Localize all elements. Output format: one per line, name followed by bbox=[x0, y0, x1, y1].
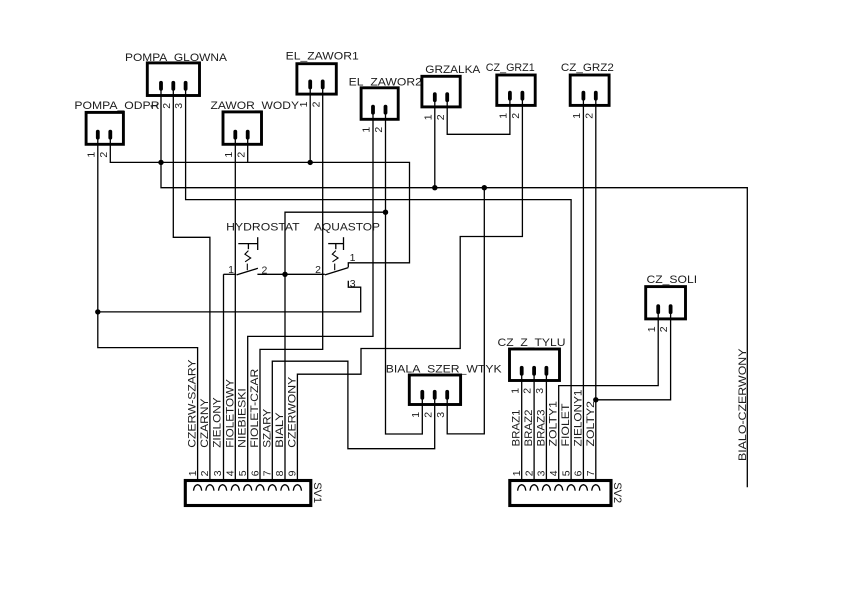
svg-text:4: 4 bbox=[225, 470, 237, 476]
SV1 pin 7 label bbox=[262, 470, 274, 476]
connector SV2 bbox=[510, 481, 623, 506]
net label NIEBIESKI bbox=[237, 388, 249, 448]
net label BIALY bbox=[274, 412, 286, 448]
svg-text:2: 2 bbox=[199, 470, 211, 476]
svg-text:2: 2 bbox=[658, 326, 670, 332]
BIALA_SZER_WTYK pin 3 label bbox=[435, 412, 447, 418]
svg-text:3: 3 bbox=[350, 278, 356, 290]
net label BIALO-CZERWONY bbox=[737, 348, 749, 461]
svg-text:SZARY: SZARY bbox=[261, 408, 273, 448]
connector POMPA_ODPR bbox=[74, 100, 159, 145]
svg-text:5: 5 bbox=[237, 470, 249, 476]
wire: line bus y=162 POMPA_ODPR pin2 to AQUASTOP pin1 bbox=[110, 144, 409, 267]
wire: POMPA_GLOWNA pin3 to SV2 pin5 (FIOLET) bbox=[186, 96, 571, 481]
svg-text:3: 3 bbox=[173, 103, 185, 109]
EL_ZAWOR1 pin 1 label bbox=[298, 101, 310, 107]
EL_ZAWOR2 pin 1 label bbox=[361, 127, 373, 133]
CZ_Z_TYLU pin 1 label bbox=[509, 388, 521, 394]
connector CZ_Z_TYLU bbox=[498, 337, 566, 381]
wire: CZ_Z_TYLU pin2 to SV2 pin2 (BRAZ2) bbox=[533, 381, 535, 481]
wire: GRZALKA pin1 stub bbox=[434, 107, 436, 188]
svg-text:GRZALKA: GRZALKA bbox=[425, 64, 481, 76]
wire: bus188 branch to BIALA_SZER_WTYK pin3 bbox=[447, 188, 484, 434]
svg-text:1: 1 bbox=[646, 326, 658, 332]
POMPA_GLOWNA pin 2 label bbox=[161, 103, 173, 109]
POMPA_ODPR pin 1 label bbox=[85, 152, 97, 158]
svg-text:ZOLTY1: ZOLTY1 bbox=[548, 401, 560, 447]
svg-text:2: 2 bbox=[161, 103, 173, 109]
svg-text:2: 2 bbox=[98, 152, 110, 158]
switch HYDROSTAT bbox=[226, 222, 300, 277]
wire: CZ_GRZ2 pin2 to SV2 pin7 (ZOLTY2) bbox=[595, 105, 597, 480]
CZ_GRZ1 pin 2 label bbox=[510, 113, 522, 119]
svg-text:1: 1 bbox=[361, 127, 373, 133]
SV2 pin 3 label bbox=[536, 470, 548, 476]
svg-text:1: 1 bbox=[228, 264, 234, 276]
svg-text:3: 3 bbox=[435, 412, 447, 418]
wire: SV1 pin8 (BIALY) riser and top link to EL_ZAWOR2 pin2 bbox=[285, 212, 386, 480]
connector CZ_GRZ1 bbox=[486, 62, 535, 106]
wire: CZ_GRZ1 pin2 to SV1 pin9 (CZERWONY) bbox=[297, 105, 522, 480]
svg-text:AQUASTOP: AQUASTOP bbox=[314, 222, 380, 234]
wire: EL_ZAWOR2 pin2 to BIALA_SZER_WTYK pin1 bbox=[386, 119, 423, 434]
svg-text:8: 8 bbox=[274, 470, 286, 476]
BIALA_SZER_WTYK pin 2 label bbox=[422, 412, 434, 418]
net label FIOLET-CZAR bbox=[249, 369, 261, 448]
svg-text:ZIELONY: ZIELONY bbox=[212, 397, 224, 448]
svg-text:3: 3 bbox=[212, 470, 224, 476]
SV1 pin 6 label bbox=[249, 470, 261, 476]
POMPA_GLOWNA pin 3 label bbox=[173, 103, 185, 109]
svg-text:HYDROSTAT: HYDROSTAT bbox=[226, 222, 300, 234]
net label SZARY bbox=[261, 408, 273, 448]
CZ_GRZ2 pin 2 label bbox=[583, 113, 595, 119]
connector EL_ZAWOR2 bbox=[349, 76, 422, 120]
svg-text:BIALO-CZERWONY: BIALO-CZERWONY bbox=[737, 348, 749, 461]
svg-text:1: 1 bbox=[509, 388, 521, 394]
svg-text:1: 1 bbox=[511, 470, 523, 476]
svg-text:5: 5 bbox=[560, 470, 572, 476]
net label CZARNY bbox=[199, 398, 211, 448]
svg-text:2: 2 bbox=[435, 114, 447, 120]
net label ZOLTY1 bbox=[548, 401, 560, 447]
svg-text:2: 2 bbox=[523, 470, 535, 476]
svg-text:FIOLETOWY: FIOLETOWY bbox=[224, 378, 236, 447]
switch AQUASTOP bbox=[314, 222, 380, 290]
svg-text:SV1: SV1 bbox=[311, 482, 323, 503]
ZAWOR_WODY pin 1 label bbox=[223, 152, 235, 158]
svg-text:1: 1 bbox=[298, 101, 310, 107]
svg-text:ZOLTY2: ZOLTY2 bbox=[585, 401, 597, 447]
connector SV1 bbox=[185, 481, 322, 506]
svg-text:4: 4 bbox=[548, 470, 560, 476]
SV2 pin 2 label bbox=[523, 470, 535, 476]
wire: GRZALKA pin2 to CZ_GRZ1 pin1 bbox=[447, 105, 510, 134]
wire: EL_ZAWOR1 pin1 stub to bus bbox=[309, 94, 311, 162]
net label CZERW-SZARY bbox=[187, 359, 199, 448]
svg-text:1: 1 bbox=[571, 113, 583, 119]
svg-text:CZ_GRZ2: CZ_GRZ2 bbox=[561, 62, 614, 74]
svg-text:7: 7 bbox=[585, 470, 597, 476]
GRZALKA pin 2 label bbox=[435, 114, 447, 120]
net label CZERWONY bbox=[286, 376, 298, 448]
wire: EL_ZAWOR2 pin1 to SV1 pin5 (NIEBIESKI) bbox=[248, 119, 373, 480]
svg-text:9: 9 bbox=[287, 470, 299, 476]
SV2 pin 7 label bbox=[585, 470, 597, 476]
junction: bus / POMPA_GLOWNA pin1 bbox=[158, 160, 163, 165]
net label FIOLET bbox=[560, 403, 572, 446]
net label ZIELONY bbox=[212, 397, 224, 448]
svg-text:2: 2 bbox=[510, 113, 522, 119]
svg-text:FIOLET: FIOLET bbox=[560, 403, 572, 446]
svg-text:FIOLET-CZAR: FIOLET-CZAR bbox=[249, 369, 261, 448]
wire: CZ_SOLI pin1 to SV2 pin4 (ZOLTY1) bbox=[559, 319, 659, 481]
svg-text:1: 1 bbox=[422, 114, 434, 120]
svg-text:1: 1 bbox=[410, 412, 422, 418]
SV1 pin 4 label bbox=[225, 470, 237, 476]
svg-text:3: 3 bbox=[534, 388, 546, 394]
wire: CZ_SOLI pin2 branch bbox=[596, 319, 671, 400]
SV2 pin 5 label bbox=[560, 470, 572, 476]
connector CZ_GRZ2 bbox=[561, 62, 614, 106]
svg-text:BIALA_SZER_WTYK: BIALA_SZER_WTYK bbox=[386, 363, 503, 375]
net label BRAZ3 bbox=[535, 410, 547, 447]
svg-text:ZAWOR_WODY: ZAWOR_WODY bbox=[211, 100, 300, 112]
junction: BIALY / switch common rail bbox=[282, 272, 287, 277]
svg-text:ZIELONY1: ZIELONY1 bbox=[572, 390, 584, 447]
CZ_SOLI pin 2 label bbox=[658, 326, 670, 332]
junction: bus188 / BIALA pin3 branch bbox=[482, 185, 487, 190]
svg-text:1: 1 bbox=[498, 113, 510, 119]
svg-text:1: 1 bbox=[350, 252, 356, 264]
SV1 pin 5 label bbox=[237, 470, 249, 476]
CZ_Z_TYLU pin 3 label bbox=[534, 388, 546, 394]
svg-text:CZERWONY: CZERWONY bbox=[286, 376, 298, 448]
wire: HYDROSTAT common to SV1 pin3 (ZIELONY) bbox=[224, 273, 237, 275]
svg-text:1: 1 bbox=[223, 152, 235, 158]
SV1 pin 8 label bbox=[274, 470, 286, 476]
connector ZAWOR_WODY bbox=[211, 100, 300, 145]
svg-text:2: 2 bbox=[583, 113, 595, 119]
svg-text:NIEBIESKI: NIEBIESKI bbox=[237, 388, 249, 448]
connector BIALA_SZER_WTYK bbox=[386, 363, 503, 405]
svg-text:CZ_GRZ1: CZ_GRZ1 bbox=[486, 62, 535, 74]
svg-text:CZERW-SZARY: CZERW-SZARY bbox=[187, 359, 199, 448]
svg-text:BRAZ2: BRAZ2 bbox=[523, 410, 535, 447]
svg-text:BRAZ1: BRAZ1 bbox=[511, 410, 523, 447]
junction: BIALY link on EL_ZAWOR2 pin2 wire bbox=[383, 210, 388, 215]
SV1 pin 2 label bbox=[199, 470, 211, 476]
SV2 pin 1 label bbox=[511, 470, 523, 476]
junction: ZOLTY2 / CZ_SOLI pin2 branch bbox=[593, 397, 598, 402]
svg-text:SV2: SV2 bbox=[611, 482, 623, 503]
svg-text:CZ_SOLI: CZ_SOLI bbox=[647, 274, 698, 286]
svg-text:3: 3 bbox=[536, 470, 548, 476]
junction: bus188 / GRZALKA pin1 bbox=[432, 185, 437, 190]
EL_ZAWOR1 pin 2 label bbox=[310, 101, 322, 107]
connector GRZALKA bbox=[422, 64, 481, 108]
CZ_GRZ2 pin 1 label bbox=[571, 113, 583, 119]
svg-text:BIALY: BIALY bbox=[274, 412, 286, 448]
svg-text:2: 2 bbox=[315, 264, 321, 276]
wire: HYDROSTAT pin2 to AQUASTOP common bbox=[257, 273, 324, 275]
junction: POMPA_ODPR pin1 / AQUASTOP pin3 branch bbox=[95, 309, 100, 314]
svg-text:6: 6 bbox=[249, 470, 261, 476]
ZAWOR_WODY pin 2 label bbox=[235, 152, 247, 158]
CZ_SOLI pin 1 label bbox=[646, 326, 658, 332]
connector POMPA_GLOWNA bbox=[125, 52, 228, 96]
SV2 pin 4 label bbox=[548, 470, 560, 476]
net label ZOLTY2 bbox=[585, 401, 597, 447]
svg-text:CZARNY: CZARNY bbox=[199, 398, 211, 448]
svg-text:BRAZ3: BRAZ3 bbox=[535, 410, 547, 447]
wire: POMPA_ODPR pin1 to SV1 pin1 (CZERW-SZARY) bbox=[98, 144, 198, 480]
wire: branch to AQUASTOP pin 3 bbox=[98, 281, 361, 312]
svg-text:6: 6 bbox=[573, 470, 585, 476]
EL_ZAWOR2 pin 2 label bbox=[373, 127, 385, 133]
net label BRAZ2 bbox=[523, 410, 535, 447]
wire: POMPA_GLOWNA pin2 to SV1 pin2 (CZARNY) bbox=[173, 96, 210, 481]
BIALA_SZER_WTYK pin 1 label bbox=[410, 412, 422, 418]
svg-text:CZ_Z_TYLU: CZ_Z_TYLU bbox=[498, 337, 566, 349]
svg-text:2: 2 bbox=[310, 101, 322, 107]
net label FIOLETOWY bbox=[224, 378, 236, 447]
svg-text:EL_ZAWOR1: EL_ZAWOR1 bbox=[286, 51, 359, 63]
junction: bus / EL_ZAWOR1 pin1 bbox=[308, 160, 313, 165]
svg-text:2: 2 bbox=[422, 412, 434, 418]
net label ZIELONY1 bbox=[572, 390, 584, 447]
connector EL_ZAWOR1 bbox=[286, 51, 359, 95]
SV1 pin 1 label bbox=[187, 470, 199, 476]
CZ_GRZ1 pin 1 label bbox=[498, 113, 510, 119]
POMPA_GLOWNA pin 1 label bbox=[149, 103, 161, 109]
net label BRAZ1 bbox=[511, 410, 523, 447]
CZ_Z_TYLU pin 2 label bbox=[522, 388, 534, 394]
svg-text:2: 2 bbox=[235, 152, 247, 158]
SV1 pin 9 label bbox=[287, 470, 299, 476]
GRZALKA pin 1 label bbox=[422, 114, 434, 120]
svg-text:7: 7 bbox=[262, 470, 274, 476]
wire: EL_ZAWOR1 pin2 to SV1 pin6 (FIOLET-CZAR) via AQUASTOP common bbox=[260, 94, 323, 480]
wire: CZ_GRZ2 pin1 to SV2 pin6 (ZIELONY1) bbox=[582, 105, 584, 480]
wire: CZ_Z_TYLU pin3 to SV2 pin3 (BRAZ3) bbox=[545, 381, 547, 481]
SV1 pin 3 label bbox=[212, 470, 224, 476]
wire: ZAWOR_WODY pin2 stub to bus bbox=[247, 144, 249, 162]
svg-text:1: 1 bbox=[187, 470, 199, 476]
connector CZ_SOLI bbox=[646, 274, 697, 319]
wire: SV1 pin7 (SZARY) to BIALA_SZER_WTYK pin2 bbox=[272, 361, 434, 480]
wire: ZAWOR_WODY pin1 to SV1 pin4 (FIOLETOWY) bbox=[234, 144, 236, 480]
POMPA_ODPR pin 2 label bbox=[98, 152, 110, 158]
wire: POMPA_GLOWNA pin1 to BIALO-CZERWONY stub (bus y=188) bbox=[161, 96, 747, 488]
SV2 pin 6 label bbox=[573, 470, 585, 476]
svg-text:POMPA_ODPR: POMPA_ODPR bbox=[74, 100, 159, 112]
svg-text:1: 1 bbox=[85, 152, 97, 158]
svg-text:2: 2 bbox=[522, 388, 534, 394]
wire: CZ_Z_TYLU pin1 to SV2 pin1 (BRAZ1) bbox=[521, 381, 523, 481]
svg-text:2: 2 bbox=[373, 127, 385, 133]
